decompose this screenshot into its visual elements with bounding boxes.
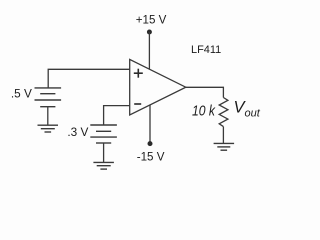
- op-amp U1 triangle: [130, 59, 186, 115]
- wire op-amp output to resistor R1: [186, 87, 224, 97]
- battery V1 .5 V: [35, 88, 62, 107]
- ground under resistor R1: [214, 143, 235, 150]
- svg-text:LF411: LF411: [191, 44, 221, 56]
- resistor R1 10 k: [219, 98, 228, 127]
- battery V2 .3 V: [90, 125, 117, 143]
- svg-text:+15 V: +15 V: [136, 13, 167, 26]
- svg-text:.5 V: .5 V: [11, 87, 32, 101]
- wire battery V1 to ground: [47, 107, 49, 126]
- wire battery V1 to noninverting input: [48, 69, 130, 88]
- wire -15V from op-amp bottom: [149, 105, 151, 144]
- wire resistor R1 to ground: [222, 127, 224, 144]
- wire battery V2 to ground: [103, 143, 105, 162]
- svg-text:.3 V: .3 V: [67, 125, 88, 139]
- ground under battery V2: [93, 162, 114, 169]
- wire +15V supply to op-amp top: [148, 32, 150, 69]
- svg-text:10 k: 10 k: [192, 103, 216, 120]
- op-amp U1 inverting input − mark: [134, 103, 141, 105]
- ground under battery V1: [38, 125, 59, 132]
- wire battery V2 to inverting input: [104, 106, 130, 125]
- op-amp U1 noninverting input + mark: [134, 69, 143, 78]
- svg-text:-15 V: -15 V: [137, 150, 165, 163]
- node junction dot -15V: [148, 141, 153, 146]
- node junction dot +15V: [147, 30, 152, 35]
